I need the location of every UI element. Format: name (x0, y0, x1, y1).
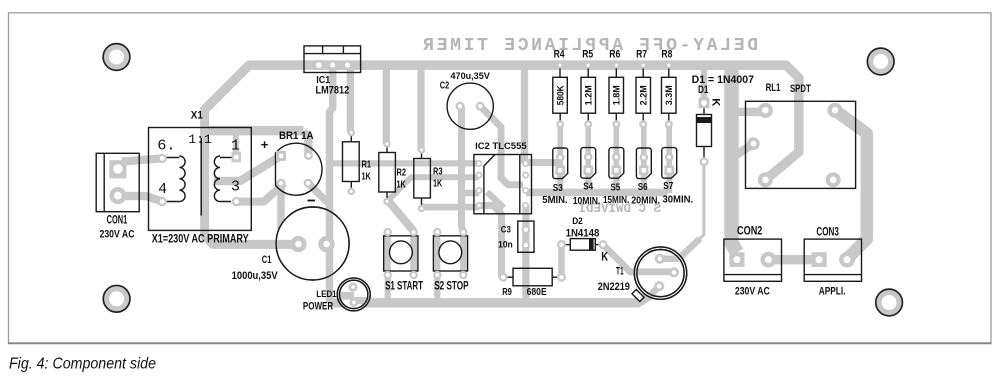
svg-text:Fig. 4: Component side: Fig. 4: Component side (9, 356, 156, 373)
svg-text:1000u,35V: 1000u,35V (232, 270, 279, 282)
svg-text:CON2: CON2 (737, 225, 762, 238)
svg-text:R5: R5 (582, 49, 593, 61)
svg-text:20MIN.: 20MIN. (631, 195, 660, 207)
svg-text:470u,35V: 470u,35V (451, 71, 491, 81)
svg-text:POWER: POWER (303, 300, 333, 312)
svg-text:S1 START: S1 START (385, 279, 423, 292)
svg-text:C2: C2 (440, 81, 450, 92)
svg-text:1.2M: 1.2M (584, 85, 594, 105)
svg-text:S5: S5 (610, 183, 620, 194)
svg-text:T1: T1 (616, 266, 624, 278)
svg-text:S2 STOP: S2 STOP (434, 279, 469, 292)
svg-text:R8: R8 (661, 49, 672, 61)
svg-text:D1: D1 (698, 84, 709, 96)
svg-text:R4: R4 (554, 49, 566, 61)
svg-text:BR1 1A: BR1 1A (279, 130, 314, 142)
svg-text:CON1: CON1 (107, 214, 128, 227)
svg-text:3: 3 (231, 179, 240, 196)
svg-text:S6: S6 (638, 182, 648, 193)
svg-text:1K: 1K (433, 179, 443, 190)
svg-text:30MIN.: 30MIN. (663, 194, 694, 206)
svg-text:R1: R1 (362, 160, 372, 171)
svg-text:1K: 1K (362, 172, 372, 183)
svg-text:580K: 580K (555, 85, 565, 106)
svg-text:R3: R3 (433, 167, 443, 178)
svg-text:SPDT: SPDT (790, 83, 811, 95)
svg-text:K: K (601, 251, 608, 264)
svg-text:K: K (710, 98, 722, 107)
svg-text:APPLI.: APPLI. (819, 285, 846, 297)
svg-text:C3: C3 (501, 225, 511, 235)
svg-text:1.8M: 1.8M (612, 85, 622, 105)
svg-text:R7: R7 (636, 49, 647, 61)
svg-text:5MIN.: 5MIN. (542, 194, 567, 206)
svg-text:1: 1 (231, 138, 240, 155)
svg-text:+: + (261, 137, 269, 152)
svg-text:R2: R2 (397, 168, 407, 179)
svg-text:IC2 TLC555: IC2 TLC555 (475, 141, 527, 151)
svg-text:15MIN.: 15MIN. (603, 194, 629, 206)
svg-text:S7: S7 (663, 181, 673, 192)
svg-text:10n: 10n (498, 240, 513, 250)
svg-text:230V AC: 230V AC (735, 285, 770, 297)
svg-text:3.3M: 3.3M (664, 85, 674, 105)
svg-text:1N4148: 1N4148 (566, 228, 600, 240)
svg-text:1K: 1K (397, 180, 407, 191)
svg-text:X1: X1 (191, 110, 203, 122)
svg-text:S4: S4 (583, 182, 593, 193)
svg-text:S3: S3 (553, 183, 563, 194)
svg-text:1:1: 1:1 (188, 132, 212, 147)
svg-text:6.: 6. (157, 138, 175, 155)
svg-text:2N2219: 2N2219 (598, 281, 630, 293)
svg-text:C1: C1 (262, 254, 272, 266)
svg-text:D2: D2 (572, 216, 583, 226)
svg-text:680E: 680E (527, 287, 547, 298)
svg-text:LED1: LED1 (316, 289, 336, 299)
svg-text:RL1: RL1 (766, 82, 781, 94)
svg-text:10MIN.: 10MIN. (573, 195, 601, 207)
svg-text:R9: R9 (502, 287, 512, 298)
svg-text:R6: R6 (609, 49, 620, 61)
svg-text:2.2M: 2.2M (639, 85, 649, 105)
svg-text:LM7812: LM7812 (316, 85, 350, 97)
svg-text:230V AC: 230V AC (100, 229, 135, 241)
svg-text:X1=230V AC PRIMARY: X1=230V AC PRIMARY (152, 233, 249, 246)
svg-text:CON3: CON3 (816, 226, 839, 239)
svg-text:4: 4 (158, 181, 167, 198)
